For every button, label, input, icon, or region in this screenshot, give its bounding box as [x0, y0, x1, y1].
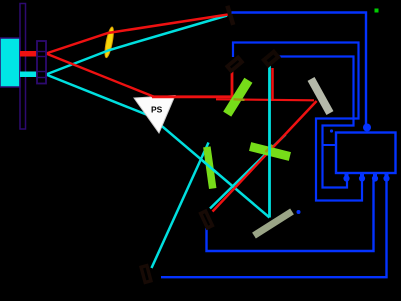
prism PS: [134, 96, 175, 134]
wire from detector D1 to controller box top pin: [232, 13, 367, 126]
red output tab: [20, 51, 37, 57]
red beam prism to corner, up to detector DA: [152, 70, 232, 97]
svg-text:PS: PS: [151, 105, 163, 115]
detector D4: [141, 266, 151, 283]
aperture box: [37, 41, 46, 84]
piezo dot at mirror M2: [297, 210, 301, 214]
detector D1 (top): [225, 5, 235, 25]
box top pin: [363, 124, 371, 132]
cyan output tab: [20, 72, 37, 78]
olive overlap on G3: [266, 145, 273, 152]
wire from detector DA loop to box pin2: [233, 43, 362, 201]
wire from detector D4 to box pin4: [161, 180, 387, 277]
polarizer G1 (green): [223, 78, 252, 117]
cyan beam vertical from DB to mirror M2: [268, 64, 271, 218]
wire from detector DB loop to box pin1: [277, 57, 354, 188]
red beam up to detector DB: [271, 68, 274, 101]
aperture slot upper: [37, 52, 46, 57]
controller box: [336, 133, 396, 174]
box bottom pin 3: [372, 173, 378, 182]
detector DA: [227, 57, 242, 71]
box bottom pin 1: [343, 173, 349, 182]
red beam from laser to prism: [46, 54, 154, 97]
wire from detector D5 to box pin3: [207, 180, 374, 251]
red beam horizontal to mirror M1: [216, 99, 314, 100]
cyan beam through prism to mirror M2: [46, 75, 270, 218]
lens L1 (yellow): [103, 26, 115, 58]
cyan beam segment over polarizer G2: [203, 161, 218, 173]
cyan beam from detector D5 up-right: [210, 135, 286, 209]
cyan beam from polarizer G2 down to detector D4: [152, 143, 209, 269]
green indicator dot top right: [375, 9, 379, 13]
laser body: [0, 38, 20, 87]
detector D5: [201, 211, 213, 228]
mirror M1 (gray): [308, 77, 334, 115]
cyan beam to detector D1 (bends at lens): [46, 16, 227, 75]
olive overlap on G1: [234, 98, 245, 101]
detector DB: [264, 52, 278, 66]
red beam to detector D1 (bends at lens): [46, 15, 228, 54]
red beam mirror M1 down to detector D5: [213, 101, 317, 212]
box bottom pin 2: [359, 173, 365, 182]
laser mount post: [20, 4, 26, 130]
mirror M2 (gray): [252, 209, 294, 239]
polarizer G2 (green): [203, 146, 216, 189]
junction dot near box left: [330, 129, 333, 132]
wire stub left of box: [323, 144, 337, 146]
polarizer G3 (green): [249, 142, 291, 161]
box bottom pin 4: [383, 173, 389, 182]
aperture slot lower: [37, 72, 46, 78]
